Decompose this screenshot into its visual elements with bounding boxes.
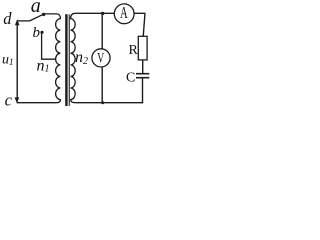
svg-text:V: V (97, 49, 105, 66)
svg-text:u1: u1 (2, 53, 14, 68)
svg-text:R: R (129, 43, 139, 58)
svg-text:n1: n1 (37, 58, 50, 75)
svg-text:A: A (120, 4, 128, 23)
svg-text:c: c (5, 91, 13, 110)
svg-text:b: b (33, 25, 41, 41)
svg-text:n2: n2 (75, 49, 88, 67)
svg-text:a: a (31, 0, 41, 17)
svg-text:d: d (3, 9, 12, 28)
svg-text:C: C (126, 71, 135, 86)
